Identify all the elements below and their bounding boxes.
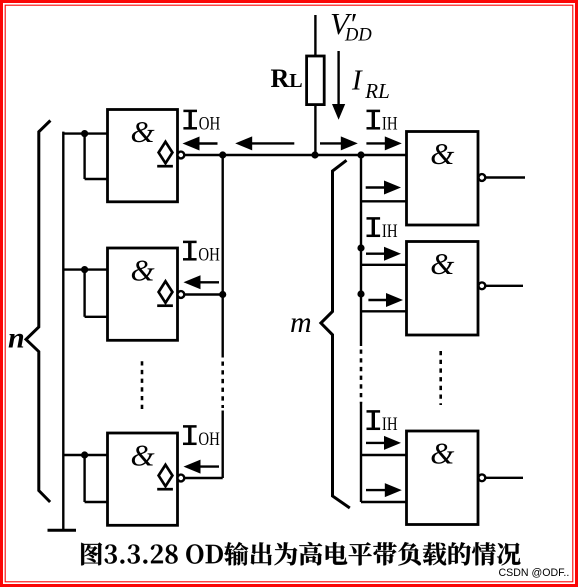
- open-drain diamond symbol gate G1: [157, 142, 173, 166]
- svg-text:DD: DD: [344, 25, 372, 45]
- svg-text:I: I: [351, 65, 363, 97]
- wire right gate U2 input 1: [361, 264, 407, 266]
- arrow IIH into gate U1 (points right): [366, 136, 401, 150]
- junction dot bus / resistor: [311, 151, 318, 158]
- output pin circle gate G2: [178, 291, 185, 298]
- wire main bus horizontal (wired-AND node): [184, 154, 406, 156]
- junction dot left gate G3 inputs: [81, 451, 88, 458]
- arrow IOH gate G1 (points left): [183, 137, 218, 151]
- wire right bus vertical (upper solid): [360, 155, 362, 346]
- ground bar: [48, 529, 77, 532]
- wire left gate G1 input 2: [85, 178, 108, 180]
- wire left gate G3 input branch vertical: [83, 455, 85, 502]
- wire left gate G2 input branch vertical: [83, 270, 85, 317]
- and gate U3 (load, right): [407, 431, 479, 525]
- wire left gate G2 input 2: [85, 316, 108, 318]
- wire right gate U1 output: [485, 176, 525, 178]
- arrow gate U3 input 1 (points right): [366, 436, 401, 450]
- brace n (left, spans n gates): [26, 121, 50, 503]
- junction dot bus / right inputs: [357, 151, 364, 158]
- wire left gate G1 input 1 from bus: [63, 132, 107, 134]
- wire right gate U2 output: [485, 285, 523, 287]
- nand gate G2 (open-drain, left): [108, 248, 178, 340]
- svg-text:m: m: [290, 306, 312, 339]
- ellipsis dotted line left gate column: [141, 361, 144, 411]
- svg-text:&: &: [430, 436, 454, 471]
- nand gate G3 (open-drain, left): [108, 433, 178, 525]
- svg-text:RL: RL: [364, 79, 390, 103]
- open-drain diamond symbol gate G2: [157, 281, 173, 305]
- arrow IOH gate G2 (points left): [184, 275, 220, 289]
- wire resistor bottom to bus: [314, 105, 316, 155]
- svg-text:OH: OH: [199, 113, 220, 134]
- output pin circle gate U2: [479, 282, 486, 289]
- svg-text:CSDN @ODF..: CSDN @ODF..: [499, 567, 570, 579]
- label IIH gate U3: [367, 411, 398, 434]
- arrow gate U3 input 2 (points right): [366, 483, 402, 497]
- wire right bus vertical (lower solid): [360, 404, 362, 503]
- svg-text:&: &: [130, 114, 154, 149]
- wire left gate G1 input branch vertical: [83, 134, 85, 179]
- junction dot left gate G2 output: [219, 291, 226, 298]
- and gate U1 (load, right): [407, 132, 479, 226]
- wire left gate G2 input 1 from bus: [63, 268, 107, 270]
- output pin circle gate U1: [479, 174, 486, 181]
- wire left outputs vertical (upper solid): [221, 155, 223, 358]
- label IOH gate G3: [183, 426, 220, 449]
- svg-text:&: &: [130, 438, 154, 473]
- and gate U2 (load, right): [407, 242, 479, 336]
- arrow gate U2 input 2 (points right): [368, 293, 403, 307]
- wire left outputs vertical (lower solid): [221, 411, 223, 479]
- ellipsis dotted line right gate column: [439, 351, 442, 405]
- resistor RL: [307, 56, 325, 105]
- svg-text:OH: OH: [198, 428, 219, 449]
- arrow IOH gate G3 (points left): [184, 460, 220, 474]
- arrow bus current to left gates (points left): [235, 136, 294, 150]
- label IIH gate U1: [367, 111, 398, 134]
- output pin circle gate G3: [178, 475, 185, 482]
- arrow gate U2 input 1 (points right): [366, 247, 401, 261]
- open-drain diamond symbol gate G3: [157, 465, 173, 489]
- svg-text:&: &: [430, 136, 454, 171]
- arrow bus current to right gates (points right): [320, 136, 358, 150]
- caption: 图3.3.28 OD输出为高电平带负载的情况: [81, 542, 520, 566]
- output pin circle gate G1: [178, 152, 185, 159]
- label IIH gate U2: [367, 218, 398, 241]
- junction dot right bus / gate U2 input 1: [357, 244, 364, 251]
- wire right gate U3 input 1: [361, 454, 407, 456]
- wire left gate G3 input 2: [85, 501, 108, 503]
- svg-text:IH: IH: [382, 113, 398, 134]
- wire left gate G3 output to vertical: [184, 477, 222, 479]
- output pin circle gate U3: [479, 474, 486, 481]
- svg-text:OH: OH: [198, 244, 219, 265]
- wire left gate G2 output to vertical: [184, 293, 222, 295]
- label IOH gate G2: [183, 242, 220, 265]
- svg-text:&: &: [130, 253, 154, 288]
- junction dot left gate G1 inputs: [81, 130, 88, 137]
- wire right bus vertical (dotted continuation): [360, 350, 363, 404]
- junction dot bus / left outputs: [219, 151, 226, 158]
- junction dot left gate G2 inputs: [81, 266, 88, 273]
- arrow gate U1 input 2 (points right): [366, 181, 401, 195]
- wire right gate U3 output: [485, 477, 523, 479]
- svg-text:&: &: [430, 246, 454, 281]
- wire right gate U2 input 2: [361, 310, 407, 312]
- svg-text:IH: IH: [382, 413, 398, 434]
- junction dot right bus / gate U2 input 2: [357, 290, 364, 297]
- wire left bus vertical (to ground): [62, 132, 64, 531]
- label IOH gate G1: [183, 111, 220, 134]
- wire left gate G3 input 1 from bus: [63, 454, 107, 456]
- arrow IRL (points down): [332, 51, 345, 120]
- nand gate G1 (open-drain, left): [108, 110, 178, 202]
- svg-text:IH: IH: [382, 220, 398, 241]
- wire VDD to resistor top: [314, 15, 316, 56]
- svg-text:n: n: [8, 322, 25, 355]
- wire right gate U1 input 2: [361, 200, 407, 202]
- brace m (right, spans m gates): [321, 160, 350, 508]
- wire left outputs vertical (dotted continuation): [221, 362, 224, 409]
- wire right gate U3 input 2: [361, 501, 407, 503]
